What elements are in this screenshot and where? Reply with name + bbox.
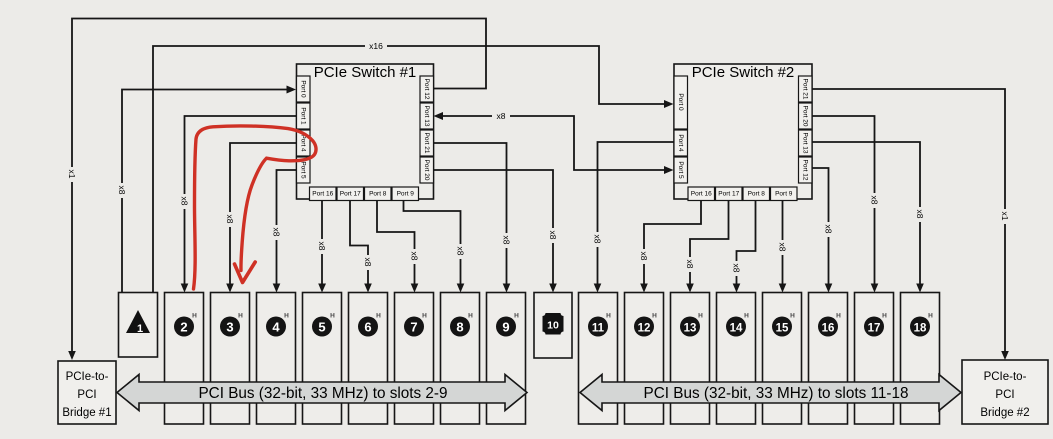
svg-text:Bridge #1: Bridge #1 bbox=[62, 407, 111, 419]
wire x8: Switch #1 Port 16 to slot 5 bbox=[317, 199, 327, 293]
svg-text:Port 13: Port 13 bbox=[423, 106, 430, 127]
svg-text:Port 1: Port 1 bbox=[300, 107, 307, 125]
svg-text:Port 9: Port 9 bbox=[397, 190, 415, 197]
svg-text:Port 8: Port 8 bbox=[369, 190, 387, 197]
svg-text:x8: x8 bbox=[502, 236, 512, 245]
svg-text:x8: x8 bbox=[548, 231, 558, 240]
Switch #1 Port 8 bbox=[365, 187, 392, 201]
svg-text:Port 0: Port 0 bbox=[300, 80, 307, 98]
svg-text:Port 16: Port 16 bbox=[691, 190, 712, 197]
svg-text:Port 21: Port 21 bbox=[802, 79, 809, 100]
wire x8: Switch #2 Port 4 to slot 11 bbox=[593, 142, 675, 293]
svg-text:H: H bbox=[468, 313, 473, 320]
PCIe Switch #2 box bbox=[674, 64, 812, 199]
PCI bus arrow slots 11-18 bbox=[580, 375, 961, 411]
Switch #1 Port 20 bbox=[420, 157, 434, 183]
svg-text:Port 12: Port 12 bbox=[802, 160, 809, 181]
slot 11 bbox=[579, 293, 618, 425]
svg-text:x8: x8 bbox=[180, 197, 190, 206]
Switch #1 Port 4 bbox=[297, 130, 311, 156]
Switch #2 Port 0 bbox=[674, 76, 688, 129]
svg-text:11: 11 bbox=[592, 323, 605, 335]
Switch #1 Port 13 bbox=[420, 103, 434, 129]
svg-text:H: H bbox=[790, 313, 795, 320]
svg-text:Port 8: Port 8 bbox=[748, 190, 766, 197]
svg-text:Port 4: Port 4 bbox=[677, 134, 684, 152]
wire x8: inter-switch link Switch #1 Port 13 to Switch #2 Port 5 bbox=[434, 110, 674, 174]
svg-text:Port 0: Port 0 bbox=[677, 93, 684, 111]
slot 9 bbox=[487, 293, 526, 425]
svg-text:x8: x8 bbox=[870, 196, 880, 205]
svg-text:Port 17: Port 17 bbox=[340, 190, 361, 197]
svg-text:Port 13: Port 13 bbox=[802, 133, 809, 154]
svg-text:5: 5 bbox=[318, 320, 325, 335]
Switch #2 Port 16 bbox=[688, 187, 715, 201]
slot 7 bbox=[395, 293, 434, 425]
Switch #2 Port 8 bbox=[743, 187, 770, 201]
wire x8: Switch #1 Port 9 to slot 8 bbox=[404, 199, 466, 293]
svg-text:H: H bbox=[836, 313, 841, 320]
svg-text:8: 8 bbox=[456, 320, 463, 335]
wire x8: Switch #2 Port 20 to slot 17 bbox=[812, 116, 880, 293]
svg-text:x1: x1 bbox=[1000, 212, 1010, 221]
PCIe-to-PCI Bridge #2 box bbox=[962, 360, 1048, 424]
slot 3 bbox=[211, 293, 250, 425]
Switch #2 Port 12 bbox=[799, 157, 813, 183]
svg-text:x8: x8 bbox=[497, 111, 506, 121]
svg-text:H: H bbox=[376, 313, 381, 320]
Switch #2 Port 5 bbox=[674, 157, 688, 183]
svg-text:PCIe-to-: PCIe-to- bbox=[66, 371, 109, 383]
svg-text:Port 20: Port 20 bbox=[802, 106, 809, 127]
svg-text:x8: x8 bbox=[778, 243, 788, 252]
svg-text:H: H bbox=[606, 313, 611, 320]
svg-text:1: 1 bbox=[137, 323, 143, 335]
svg-text:H: H bbox=[744, 313, 749, 320]
Switch #1 Port 9 bbox=[392, 187, 419, 201]
red annotation: hand-drawn loop from Port 4 area to slots 2/3 bbox=[194, 126, 317, 289]
slot 16 bbox=[809, 293, 848, 425]
svg-text:3: 3 bbox=[226, 320, 233, 335]
Switch #1 Port 12 bbox=[420, 76, 434, 102]
svg-text:H: H bbox=[698, 313, 703, 320]
wire x8: Switch #2 Port 8 to slot 14 bbox=[732, 199, 756, 293]
svg-text:4: 4 bbox=[272, 320, 280, 335]
svg-text:x8: x8 bbox=[456, 247, 466, 256]
svg-text:x8: x8 bbox=[685, 260, 695, 269]
svg-text:x8: x8 bbox=[915, 210, 925, 219]
wire x8: Switch #1 Port 21 to slot 9 bbox=[434, 143, 512, 293]
slot 2 bbox=[165, 293, 204, 425]
svg-text:PCI: PCI bbox=[995, 389, 1014, 401]
svg-text:7: 7 bbox=[410, 320, 417, 335]
svg-text:H: H bbox=[928, 313, 933, 320]
svg-text:Port 12: Port 12 bbox=[423, 79, 430, 100]
wire x1: PCIe Switch #1 Port 12 to Bridge #1 bbox=[67, 19, 486, 361]
svg-text:Port 9: Port 9 bbox=[775, 190, 793, 197]
slot 15 bbox=[763, 293, 802, 425]
svg-text:Port 20: Port 20 bbox=[423, 160, 430, 181]
svg-text:H: H bbox=[192, 313, 197, 320]
svg-text:PCIe-to-: PCIe-to- bbox=[984, 371, 1027, 383]
Switch #1 Port 16 bbox=[310, 187, 337, 201]
Switch #2 Port 13 bbox=[799, 130, 813, 156]
Switch #1 Port 17 bbox=[337, 187, 364, 201]
slot 1 (host slot, triangle icon) bbox=[119, 293, 158, 358]
svg-text:x8: x8 bbox=[317, 242, 327, 251]
slot 14 bbox=[717, 293, 756, 425]
svg-text:H: H bbox=[330, 313, 335, 320]
svg-text:Port 17: Port 17 bbox=[718, 190, 739, 197]
slot 10 (short slot, square icon) bbox=[534, 293, 572, 359]
Switch #1 Port 1 bbox=[297, 103, 311, 129]
wire x8: Switch #2 Port 16 to slot 12 bbox=[639, 199, 701, 293]
wire x8: Switch #2 Port 9 to slot 15 bbox=[778, 199, 788, 293]
svg-text:18: 18 bbox=[914, 323, 927, 335]
svg-text:12: 12 bbox=[638, 323, 651, 335]
svg-text:x8: x8 bbox=[363, 258, 373, 267]
svg-text:x8: x8 bbox=[824, 225, 834, 234]
svg-text:2: 2 bbox=[180, 320, 187, 335]
wire x8: Switch #2 Port 17 to slot 13 bbox=[685, 199, 729, 293]
svg-text:13: 13 bbox=[684, 323, 697, 335]
Switch #2 Port 17 bbox=[716, 187, 743, 201]
svg-text:15: 15 bbox=[776, 323, 789, 335]
svg-text:PCIe Switch #1: PCIe Switch #1 bbox=[314, 64, 417, 81]
slot 4 bbox=[257, 293, 296, 425]
svg-text:9: 9 bbox=[502, 320, 509, 335]
PCIe Switch #1 box bbox=[297, 64, 434, 199]
svg-text:17: 17 bbox=[868, 323, 881, 335]
svg-text:x8: x8 bbox=[272, 228, 282, 237]
slot 18 bbox=[901, 293, 940, 425]
svg-text:10: 10 bbox=[547, 320, 559, 332]
PCIe-to-PCI Bridge #1 box bbox=[58, 361, 116, 424]
svg-text:6: 6 bbox=[364, 320, 371, 335]
wire x1: Switch #2 Port 21 to Bridge #2 bbox=[812, 89, 1010, 360]
Switch #1 Port 0 bbox=[297, 76, 311, 102]
wire x8: slot 2 to Switch #1 Port 1 bbox=[180, 116, 297, 293]
Switch #1 Port 5 bbox=[297, 157, 311, 183]
wire x8: Switch #2 Port 13 to slot 18 bbox=[812, 142, 925, 293]
Switch #2 Port 9 bbox=[771, 187, 798, 201]
slot 12 bbox=[625, 293, 664, 425]
Switch #2 Port 21 bbox=[799, 76, 813, 102]
svg-text:H: H bbox=[882, 313, 887, 320]
slot 5 bbox=[303, 293, 342, 425]
wire x8: slot 3 to Switch #1 Port 4 bbox=[225, 143, 296, 293]
wire x8: slot 4 to Switch #1 Port 5 bbox=[272, 170, 297, 293]
PCI bus arrow slots 2-9 bbox=[117, 375, 527, 411]
Switch #1 Port 21 bbox=[420, 130, 434, 156]
svg-text:PCIe Switch #2: PCIe Switch #2 bbox=[692, 64, 795, 81]
Switch #2 Port 4 bbox=[674, 130, 688, 156]
svg-text:H: H bbox=[514, 313, 519, 320]
Switch #2 Port 20 bbox=[799, 103, 813, 129]
wire x8: Switch #1 Port 17 to slot 6 bbox=[350, 199, 373, 293]
svg-text:H: H bbox=[422, 313, 427, 320]
wire x8: slot 1 to PCIe Switch #1 Port 0 bbox=[117, 86, 296, 294]
svg-text:x8: x8 bbox=[593, 235, 603, 244]
wire x8: Switch #1 Port 20 to slot 10 bbox=[434, 170, 559, 293]
slot 8 bbox=[441, 293, 480, 425]
svg-text:H: H bbox=[652, 313, 657, 320]
svg-text:x16: x16 bbox=[369, 41, 383, 51]
svg-text:x8: x8 bbox=[732, 264, 742, 273]
svg-text:x8: x8 bbox=[117, 186, 127, 195]
wire x8: Switch #1 Port 8 to slot 7 bbox=[377, 199, 420, 293]
svg-text:PCI: PCI bbox=[77, 389, 96, 401]
svg-text:x8: x8 bbox=[639, 252, 649, 261]
svg-text:H: H bbox=[284, 313, 289, 320]
svg-text:14: 14 bbox=[730, 323, 743, 335]
svg-text:x1: x1 bbox=[67, 170, 77, 179]
svg-text:Port 21: Port 21 bbox=[423, 133, 430, 154]
svg-text:16: 16 bbox=[822, 323, 835, 335]
svg-text:Port 5: Port 5 bbox=[677, 161, 684, 179]
svg-text:Port 5: Port 5 bbox=[300, 161, 307, 179]
svg-text:Port 16: Port 16 bbox=[312, 190, 333, 197]
svg-text:Bridge #2: Bridge #2 bbox=[980, 407, 1029, 419]
wire x8: Switch #2 Port 12 to slot 16 bbox=[812, 168, 834, 293]
svg-text:PCI Bus (32-bit, 33 MHz) to sl: PCI Bus (32-bit, 33 MHz) to slots 11-18 bbox=[644, 385, 909, 402]
slot 6 bbox=[349, 293, 388, 425]
svg-text:x8: x8 bbox=[410, 252, 420, 261]
svg-text:PCI Bus (32-bit, 33 MHz) to sl: PCI Bus (32-bit, 33 MHz) to slots 2-9 bbox=[198, 385, 447, 402]
wire x16: slot 1 to PCIe Switch #2 Port 0 bbox=[153, 39, 674, 293]
slot 13 bbox=[671, 293, 710, 425]
slot 17 bbox=[855, 293, 894, 425]
svg-text:Port 4: Port 4 bbox=[300, 134, 307, 152]
svg-text:x8: x8 bbox=[225, 215, 235, 224]
svg-text:H: H bbox=[238, 313, 243, 320]
